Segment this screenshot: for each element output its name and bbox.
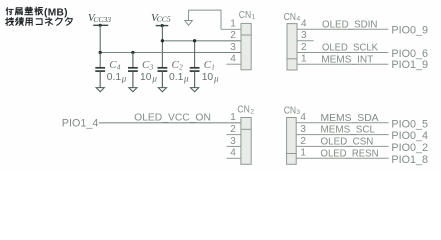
ground symbol below C4 <box>96 88 104 92</box>
capacitor C2 reference label <box>172 59 184 71</box>
ground symbol below C3 <box>129 88 137 92</box>
capacitor C1 value 10u <box>202 72 219 84</box>
ground symbol below C2 <box>158 88 166 92</box>
svg-text:PIO1_9: PIO1_9 <box>391 59 428 71</box>
svg-text:CN: CN <box>237 105 249 116</box>
svg-text:(MB): (MB) <box>44 8 68 19</box>
capacitor C2 value 0.1u <box>169 72 189 84</box>
wire VCC5 vertical down to C2 <box>161 26 163 68</box>
svg-text:0.1: 0.1 <box>169 72 184 83</box>
wire 3.3V bus to CN1 pin 3 <box>100 52 241 54</box>
svg-text:μ: μ <box>183 74 189 84</box>
svg-text:CC5: CC5 <box>157 15 171 24</box>
wire CN3 pin 1 to PIO1_8 <box>296 157 388 159</box>
capacitor C1 reference label <box>204 59 215 71</box>
wire C1 lead from 5V line <box>194 41 196 68</box>
svg-text:2: 2 <box>230 30 236 41</box>
connector CN3 label <box>284 105 301 116</box>
svg-text:2: 2 <box>250 108 254 115</box>
svg-text:10: 10 <box>202 72 214 83</box>
svg-text:PIO0_5: PIO0_5 <box>391 118 428 130</box>
svg-text:0.1: 0.1 <box>107 72 122 83</box>
svg-text:3: 3 <box>301 30 307 41</box>
svg-text:PIO1_4: PIO1_4 <box>62 118 99 130</box>
connector CN1 body <box>241 23 251 69</box>
wire ground hook to CN1 pin 1 <box>189 10 221 29</box>
wire CN1 pin 4 stub <box>226 63 241 65</box>
capacitor C4 reference label <box>109 59 121 71</box>
svg-text:PIO1_8: PIO1_8 <box>391 154 428 166</box>
note: board title Japanese text line 2 接続用コネクタ <box>6 18 72 26</box>
svg-text:10: 10 <box>140 72 152 83</box>
svg-text:OLED_SDIN: OLED_SDIN <box>322 19 378 30</box>
junction dot VCC5 bar center <box>161 24 164 27</box>
svg-text:MEMS_SDA: MEMS_SDA <box>321 113 379 124</box>
wire CN3 pin 3 to PIO0_4 <box>296 134 388 136</box>
power net VCC5 label <box>151 12 171 24</box>
svg-text:PIO0_2: PIO0_2 <box>391 142 428 154</box>
junction dot VCC33 bar center <box>99 24 102 27</box>
svg-text:CN: CN <box>239 10 251 21</box>
capacitor C3 value 10u <box>140 72 157 84</box>
wire CN3 pin 2 to PIO0_2 <box>296 145 388 147</box>
svg-text:3: 3 <box>149 64 154 72</box>
note: board title Japanese text line 1 付属基板 <box>6 7 42 15</box>
wire VCC33 vertical to 3.3V bus <box>99 25 101 52</box>
wire CN4 pin 3 stub <box>297 40 314 42</box>
svg-text:PIO0_4: PIO0_4 <box>391 130 428 142</box>
svg-text:1: 1 <box>211 64 215 72</box>
wire CN3 pin 4 to PIO0_5 <box>296 122 388 124</box>
svg-text:MEMS_SCL: MEMS_SCL <box>321 125 376 136</box>
wire CN4 pin 1 to PIO1_9 <box>297 63 388 65</box>
svg-text:3: 3 <box>300 124 306 135</box>
svg-text:4: 4 <box>230 54 236 65</box>
svg-text:2: 2 <box>300 136 306 147</box>
junction dot VCC5/5V line <box>161 39 164 42</box>
svg-text:CN: CN <box>284 105 296 116</box>
wire 5V line to CN1 pin 2 <box>162 40 241 42</box>
svg-text:1: 1 <box>230 112 236 123</box>
wire CN2 pin 4 stub <box>227 157 241 159</box>
capacitor C2 <box>158 68 168 88</box>
power net VCC33 label <box>88 12 111 24</box>
svg-text:4: 4 <box>301 19 307 30</box>
svg-text:PIO0_9: PIO0_9 <box>391 25 428 37</box>
svg-text:CC33: CC33 <box>93 15 111 24</box>
wire CN2 pin 3 stub <box>227 145 241 147</box>
power symbol VCC5 bar <box>156 25 169 27</box>
connector CN4 label <box>284 12 301 23</box>
connector CN1 label <box>239 10 256 21</box>
wire CN4 pin 4 to PIO0_9 <box>297 28 388 30</box>
svg-text:2: 2 <box>230 124 236 135</box>
svg-text:4: 4 <box>296 16 300 23</box>
svg-text:3: 3 <box>230 136 236 147</box>
svg-text:μ: μ <box>121 74 127 84</box>
svg-text:μ: μ <box>213 74 219 84</box>
svg-text:3: 3 <box>230 42 236 53</box>
capacitor C3 reference label <box>142 59 154 71</box>
ground symbol top arrow <box>185 21 193 26</box>
junction dot C3/bus <box>131 51 134 54</box>
wire CN2 pin 2 stub <box>227 134 241 136</box>
svg-text:μ: μ <box>151 74 157 84</box>
junction dot VCC33/bus <box>99 51 102 54</box>
svg-text:1: 1 <box>230 19 236 30</box>
svg-text:MEMS_INT: MEMS_INT <box>321 54 373 65</box>
svg-text:2: 2 <box>301 42 307 53</box>
svg-text:4: 4 <box>300 112 306 123</box>
connector CN2 body <box>241 118 251 165</box>
junction dot C1/5V line <box>193 39 196 42</box>
svg-text:OLED_CSN: OLED_CSN <box>321 137 374 148</box>
wire PIO1_4 to CN2 pin 1 <box>99 122 241 124</box>
capacitor C4 value 0.1u <box>107 72 127 84</box>
svg-text:1: 1 <box>300 148 306 159</box>
svg-text:OLED_VCC_ON: OLED_VCC_ON <box>134 113 211 124</box>
svg-text:CN: CN <box>284 12 296 23</box>
wire CN1 pin 1 stub <box>221 28 241 30</box>
power symbol VCC33 bar <box>93 24 108 26</box>
connector CN4 body <box>287 24 297 70</box>
svg-text:2: 2 <box>179 64 183 72</box>
capacitor C3 <box>128 53 138 88</box>
wire CN4 pin 2 to PIO0_6 <box>297 52 388 54</box>
svg-text:4: 4 <box>230 148 236 159</box>
capacitor C1 <box>190 68 200 88</box>
svg-text:OLED_SCLK: OLED_SCLK <box>322 43 378 54</box>
ground symbol below C1 <box>191 88 199 92</box>
connector CN2 label <box>237 105 254 116</box>
capacitor C4 <box>95 53 105 88</box>
svg-text:1: 1 <box>301 54 307 65</box>
connector CN3 body <box>287 118 297 165</box>
svg-text:4: 4 <box>117 64 121 72</box>
svg-text:1: 1 <box>251 14 255 21</box>
svg-text:OLED_RESN: OLED_RESN <box>321 148 379 159</box>
